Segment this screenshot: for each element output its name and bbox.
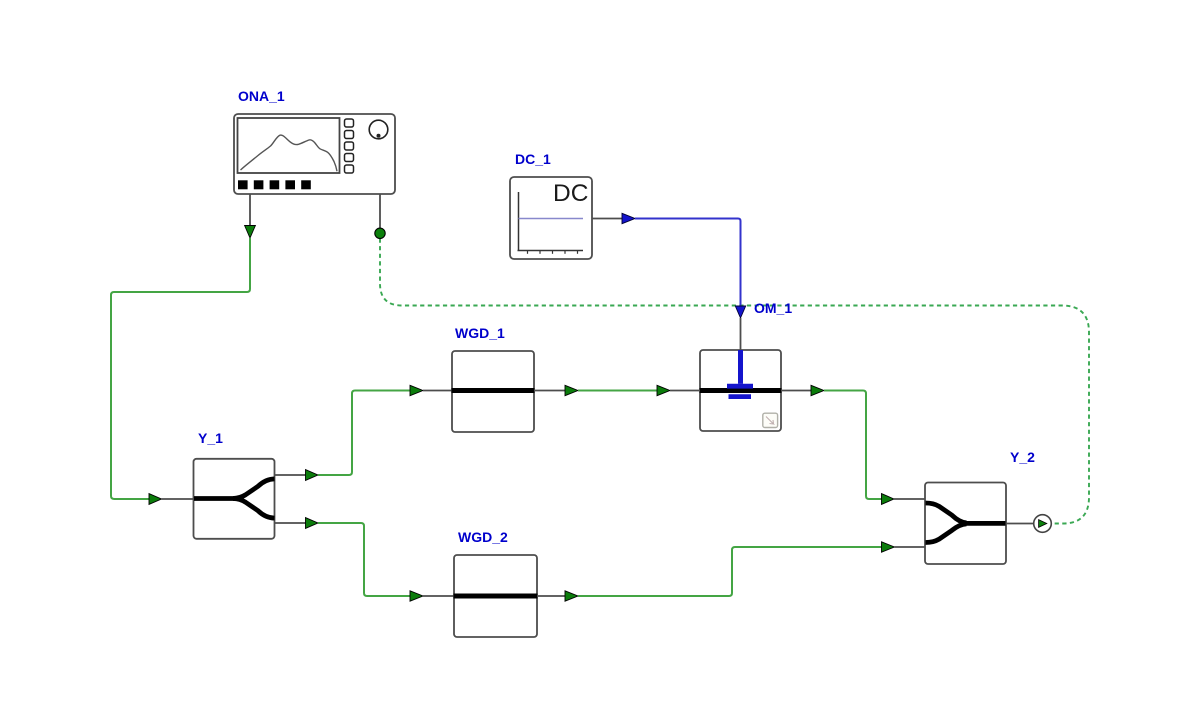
optical modulator OM_1 [700,350,782,431]
svg-text:Y_1: Y_1 [198,430,223,446]
Y_1 lower output lead [275,522,306,524]
WGD_2 output arrow (right) [565,591,578,601]
ONA_1 right port lead [379,194,381,228]
WGD_1 output arrow (right) [565,385,578,395]
Y_1 upper output lead [275,474,306,476]
svg-text:Y_2: Y_2 [1010,449,1035,465]
wire: DC_1 to OM_1 electrical (blue) [635,219,741,307]
Y_1 upper output arrow (right) [306,470,319,481]
WGD_2 input arrow (right) [410,591,423,601]
svg-text:WGD_2: WGD_2 [458,529,508,545]
wire: ONA_1 input to Y_1 input [111,238,250,499]
Y_1 lower output arrow (right) [306,518,319,529]
Y_1 input arrow (right) [149,494,162,505]
svg-text:DC: DC [553,180,588,207]
Y_2 upper input arrow (right) [882,494,895,505]
ONA_1 left port lead [249,194,251,226]
OM_1 electrical input arrow (blue, down) [735,306,745,318]
OM_1 output lead [781,390,811,392]
OM_1 input port lead [670,390,700,392]
ONA_1 input port arrow (down) [245,226,256,239]
OM_1 output arrow (right) [811,385,824,395]
DC_1 output lead [592,218,622,220]
wire: OM_1 output to Y_2 upper input [824,391,882,500]
Y_2 lower input port lead [895,546,926,548]
svg-text:WGD_1: WGD_1 [455,325,505,341]
WGD_1 input arrow (right) [410,385,423,395]
wire: Y_1 upper output to WGD_1 input [318,391,410,476]
OM_1 input arrow (right) [657,385,670,395]
Y branch splitter Y_1 [194,459,275,539]
OM_1 electrical port lead [740,318,742,350]
Y_2 upper input port lead [894,498,925,500]
wire: dashed monitor feedback loop from ONA_1 right port to Y_2 output [380,239,1089,524]
Y_2 output lead [1006,523,1034,525]
Y_1 input port lead [162,498,195,500]
wire: WGD_1 output to OM_1 input [578,390,657,392]
ONA_1 monitor port node (green dot) [375,228,385,238]
optical network analyzer ONA_1 [234,114,395,194]
waveguide WGD_1 [452,351,535,432]
Y_2 output monitor port (circle with arrow) [1034,515,1052,533]
waveguide WGD_2 [454,555,538,637]
svg-text:DC_1: DC_1 [515,151,551,167]
Y_2 lower input arrow (right) [882,542,895,552]
WGD_2 input port lead [423,595,454,597]
wire: WGD_2 output to Y_2 lower input [578,547,882,596]
wire: Y_1 lower output to WGD_2 input [318,523,410,596]
svg-text:OM_1: OM_1 [754,300,792,316]
WGD_1 output lead [534,390,565,392]
svg-text:ONA_1: ONA_1 [238,88,285,104]
WGD_1 input port lead [423,390,452,392]
DC_1 output arrow (blue, right) [622,213,635,223]
DC source DC_1 [510,177,592,259]
WGD_2 output lead [537,595,565,597]
Y branch combiner Y_2 [925,483,1006,565]
